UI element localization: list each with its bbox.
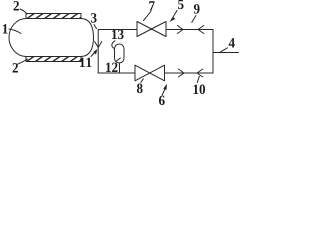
leader for 9 — [192, 16, 196, 23]
label 8 — [137, 84, 143, 94]
wire: downpipe 3 (to bottom pipe) — [97, 30, 99, 74]
wire: right vertical pipe — [212, 30, 214, 74]
label 1 — [3, 24, 8, 33]
leader for 2 bottom — [18, 59, 28, 64]
leader for 12 — [116, 58, 121, 62]
wire: outlet pipe 4 — [213, 52, 239, 54]
label 5 — [178, 0, 184, 9]
fill tube 12 (capsule body) — [115, 44, 125, 63]
flow chevron left on top pipe (9) — [198, 26, 204, 34]
label 2 bottom — [13, 63, 18, 72]
valve 8 (bowtie on bottom pipe) — [135, 65, 165, 81]
flow chevron right on bottom pipe — [178, 69, 184, 77]
leader for 8 — [141, 79, 144, 83]
flow chevron right on top pipe — [177, 26, 183, 34]
label 3 — [91, 13, 97, 23]
label 2 top — [14, 1, 19, 10]
leader for 2 top — [20, 9, 27, 14]
label 7 — [149, 1, 154, 10]
leader for 4 — [220, 48, 228, 53]
heater 2 (bottom hatched strip) — [26, 57, 81, 62]
leader for 13 (curl to cap) — [112, 41, 115, 49]
label 13 — [112, 30, 124, 40]
tank 1 (vessel body) — [9, 19, 94, 57]
arrow shaft for 11 — [91, 53, 94, 57]
label 9 — [194, 4, 200, 14]
leader for 10 — [197, 76, 199, 82]
wire: bottom pipe — [98, 72, 213, 74]
flow arrowhead down on downpipe — [95, 42, 102, 48]
leader for 7 — [144, 11, 152, 21]
arrowhead for 5 — [170, 17, 175, 21]
label 4 — [229, 38, 235, 47]
label 6 — [159, 96, 165, 106]
valve 7 (bowtie on top pipe) — [137, 22, 166, 37]
label 10 — [194, 85, 206, 95]
arrow shaft for 5 — [173, 11, 177, 18]
arrowhead for 11 — [94, 50, 98, 55]
wire: top pipe — [98, 29, 213, 31]
heater 2 (top hatched strip) — [26, 14, 81, 19]
label 11 — [80, 58, 91, 67]
arrow shaft for 6 — [162, 89, 165, 95]
arrowhead for 6 — [164, 85, 167, 90]
label 12 — [106, 63, 117, 72]
wire: fill tube stem to bottom pipe — [119, 63, 121, 73]
flow chevron left on bottom pipe (10) — [197, 69, 203, 77]
leader for 1 — [9, 29, 21, 34]
leader for 3 — [94, 25, 97, 29]
